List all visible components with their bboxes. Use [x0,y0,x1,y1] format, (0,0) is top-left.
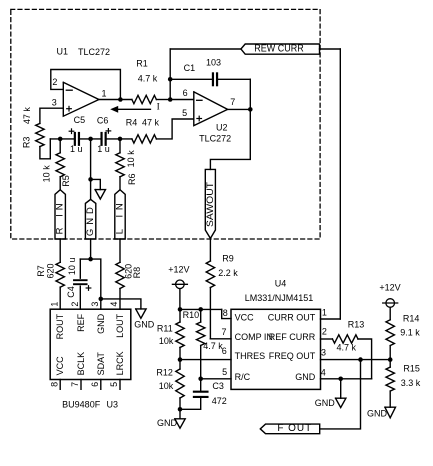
svg-text:C5: C5 [74,115,86,125]
svg-text:47 k: 47 k [142,117,160,127]
svg-text:THRES: THRES [235,351,266,361]
svg-text:GND: GND [295,372,316,382]
svg-text:3: 3 [321,347,326,357]
svg-text:I: I [157,102,160,112]
svg-text:C4: C4 [66,286,76,298]
svg-text:6: 6 [183,88,188,98]
svg-text:3.3 k: 3.3 k [401,378,421,388]
svg-text:COMP IN: COMP IN [235,332,273,342]
svg-text:R12: R12 [156,368,173,378]
svg-text:1: 1 [101,88,106,98]
svg-text:1: 1 [49,302,59,307]
svg-text:R8: R8 [132,267,142,279]
svg-text:9.1 k: 9.1 k [400,328,420,338]
svg-text:R11: R11 [157,323,173,333]
svg-text:2: 2 [322,327,327,337]
svg-text:8: 8 [49,382,59,387]
svg-text:GND: GND [134,319,155,329]
svg-text:F OUT: F OUT [277,423,311,434]
svg-text:4.7 k: 4.7 k [138,73,158,83]
svg-text:R3: R3 [22,137,32,149]
svg-text:10 k: 10 k [41,165,51,183]
svg-text:TLC272: TLC272 [78,47,110,57]
svg-text:FREQ OUT: FREQ OUT [269,351,316,361]
svg-text:R1: R1 [136,59,148,69]
svg-text:C3: C3 [212,381,224,391]
svg-text:2: 2 [70,302,80,307]
svg-text:BCLK: BCLK [76,352,86,376]
svg-text:5: 5 [222,367,227,377]
svg-text:4.7 k: 4.7 k [337,343,357,353]
svg-text:620: 620 [45,263,55,278]
svg-text:10k: 10k [159,336,174,346]
svg-text:1 u: 1 u [97,144,110,154]
svg-text:LM331/NJM4151: LM331/NJM4151 [245,293,314,303]
svg-text:U2: U2 [216,122,228,132]
svg-text:3: 3 [90,302,100,307]
svg-text:10k: 10k [159,381,174,391]
svg-text:R4: R4 [126,117,138,127]
svg-text:2: 2 [52,77,57,87]
svg-text:ROUT: ROUT [55,313,65,339]
svg-text:3: 3 [52,97,57,107]
svg-text:7: 7 [230,97,235,107]
svg-text:2.2 k: 2.2 k [218,268,238,278]
svg-text:1 u: 1 u [70,144,83,154]
svg-text:10 k: 10 k [126,150,136,168]
svg-text:GND: GND [367,409,388,419]
svg-text:103: 103 [206,57,221,67]
svg-text:REF: REF [76,313,86,332]
svg-text:6: 6 [222,346,227,356]
svg-text:GND: GND [85,207,96,236]
svg-text:4: 4 [109,302,119,307]
svg-text:CURR OUT: CURR OUT [268,313,316,323]
svg-text:SDAT: SDAT [96,352,106,376]
svg-text:R/C: R/C [235,372,251,382]
svg-text:R13: R13 [348,319,365,329]
svg-text:R5: R5 [61,175,71,187]
svg-text:GND: GND [157,418,178,428]
svg-text:R9: R9 [222,254,234,264]
svg-text:VCC: VCC [55,356,65,376]
svg-text:5: 5 [109,382,119,387]
svg-text:GND: GND [315,398,336,408]
svg-text:4: 4 [321,368,326,378]
svg-text:472: 472 [212,396,227,406]
svg-text:U3: U3 [107,399,119,409]
svg-text:SAWOUT: SAWOUT [205,182,216,227]
svg-text:10 u: 10 u [67,258,77,276]
svg-text:REW CURR: REW CURR [254,43,303,54]
svg-text:C6: C6 [97,115,109,125]
svg-text:4.7 k: 4.7 k [203,341,223,351]
svg-text:7: 7 [221,327,226,337]
svg-text:GND: GND [96,313,106,334]
svg-text:R14: R14 [403,314,420,324]
svg-text:47 k: 47 k [22,107,32,125]
svg-text:R15: R15 [403,364,420,374]
svg-text:REF CURR: REF CURR [269,332,316,342]
svg-text:1: 1 [322,308,327,318]
svg-text:+12V: +12V [379,283,400,293]
svg-text:7: 7 [70,382,80,387]
svg-text:8: 8 [223,308,228,318]
svg-text:VCC: VCC [235,313,255,323]
svg-text:6: 6 [90,382,100,387]
svg-text:BU9480F: BU9480F [62,399,101,409]
svg-text:LOUT: LOUT [115,313,125,338]
svg-text:+12V: +12V [168,264,189,274]
svg-text:R10: R10 [183,310,200,320]
svg-text:5: 5 [182,108,187,118]
svg-text:U1: U1 [57,47,69,57]
svg-text:C1: C1 [184,63,196,73]
svg-text:LRCK: LRCK [115,351,125,375]
svg-text:U4: U4 [275,278,287,288]
svg-text:R6: R6 [127,174,137,186]
svg-text:TLC272: TLC272 [199,134,231,144]
